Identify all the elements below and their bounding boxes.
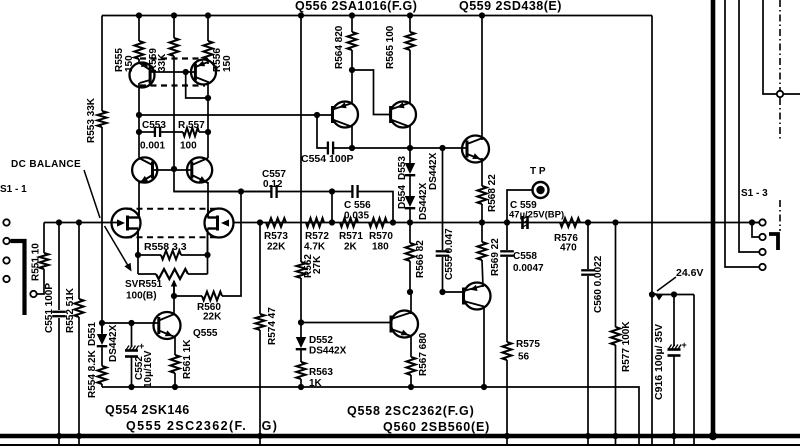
capacitor C552 electrolytic <box>125 349 138 352</box>
wire R564 to T1 emitter <box>351 50 353 70</box>
capacitor C557 <box>270 185 272 198</box>
svg-text:R573: R573 <box>264 231 288 242</box>
node top rail / R562 column <box>298 12 304 18</box>
wire right gate / feedback chain <box>234 222 760 224</box>
svg-text:Q560 2SB560(E): Q560 2SB560(E) <box>383 420 490 434</box>
wire Q559 emitter down <box>481 158 483 186</box>
svg-text:R 557: R 557 <box>178 120 205 131</box>
terminal input pin 2 <box>3 238 9 244</box>
wire vertical feed C to S1 pole <box>763 0 800 94</box>
node chain right tap <box>390 219 396 225</box>
transistor upper pair right <box>191 60 216 85</box>
svg-text:4.7K: 4.7K <box>304 242 326 253</box>
wire C556 right <box>358 192 393 223</box>
resistor R572 <box>306 218 324 227</box>
svg-text:R577 100K: R577 100K <box>621 321 632 372</box>
resistor R574 <box>255 314 264 330</box>
wire R565 to T2 emitter <box>409 50 411 103</box>
svg-text:Q555: Q555 <box>193 328 218 339</box>
node top rail / R564 <box>349 12 355 18</box>
24.6V pointer arrow <box>657 277 676 291</box>
transistor Q556 right <box>390 102 416 128</box>
node right source / R558 <box>204 252 210 258</box>
capacitor C558 <box>500 250 514 252</box>
dashed dual-FET outline top <box>126 208 219 210</box>
wire R568 to chain <box>481 204 483 223</box>
wire Q558 emitter down <box>410 335 412 357</box>
switch linkage dash line lower <box>779 200 781 231</box>
svg-text:D554: D554 <box>397 185 408 209</box>
dashed dual-FET outline bottom <box>126 236 219 238</box>
wire 24.6V node across <box>652 294 694 296</box>
node C553 left top <box>136 129 142 135</box>
wire D554 to chain <box>409 209 411 223</box>
wire R565 top <box>409 16 411 33</box>
wire C552 bottom <box>131 357 133 387</box>
terminal S1 pole circle <box>777 91 783 97</box>
node upper-right collector tie <box>205 95 211 101</box>
svg-text:R551 10: R551 10 <box>31 243 42 281</box>
node C552 top <box>128 320 134 326</box>
svg-text:+: + <box>682 340 687 350</box>
wire upper-left collector <box>138 83 140 115</box>
resistor R562 <box>296 262 305 278</box>
wire C560 bottom to ground bus <box>587 276 589 446</box>
svg-text:0.035: 0.035 <box>344 211 369 222</box>
svg-text:0.0047: 0.0047 <box>513 263 544 274</box>
node C553/R557 right <box>205 129 211 135</box>
svg-text:Q558 2SC2362(F.G): Q558 2SC2362(F.G) <box>347 404 475 418</box>
node R563 ground-side <box>298 384 304 390</box>
svg-text:10µ/16V: 10µ/16V <box>143 350 154 388</box>
wire Q555 collector up to wiper node <box>173 296 175 314</box>
wire SVR row left <box>138 273 156 275</box>
wire R560 right up to feedback row <box>222 192 241 297</box>
node lower pair bases / R559 <box>171 166 177 172</box>
svg-text:DS442X: DS442X <box>108 324 119 362</box>
wire C553 row left <box>139 131 154 133</box>
node chain left / R574 column <box>257 219 263 225</box>
wire D553 to D554 <box>409 176 411 196</box>
wire C554 branch <box>317 115 327 148</box>
resistor R573 <box>266 218 286 227</box>
terminal S1-3 pin 1 <box>759 219 765 225</box>
wire to S1-3 pin 2 <box>752 223 759 238</box>
wire Q560 base <box>443 291 465 293</box>
wire C560 top <box>587 223 589 270</box>
JFET Q554 right half <box>205 209 234 238</box>
node 24.6V <box>649 291 655 297</box>
svg-text:C553: C553 <box>142 120 166 131</box>
wire SVR right side <box>207 255 209 274</box>
svg-text:DS442X: DS442X <box>309 346 347 357</box>
transistor upper pair left <box>130 63 155 88</box>
svg-text:150: 150 <box>222 55 233 72</box>
wire R552 top <box>78 223 80 300</box>
terminal S1-3 pin 3 <box>759 249 765 255</box>
wire C553 to R557 <box>161 131 183 133</box>
node R552 ground <box>76 433 82 439</box>
node C916 ground <box>671 433 677 439</box>
capacitor C916 electrolytic <box>668 348 681 351</box>
wire R551 bottom to pad <box>37 269 44 294</box>
switch linkage dash line upper <box>779 0 781 90</box>
node C552 ground-side <box>128 384 134 390</box>
resistor R558 <box>161 251 181 260</box>
svg-text:180: 180 <box>372 242 389 253</box>
svg-text:100(B): 100(B) <box>126 291 157 302</box>
wire vertical feed B <box>739 0 759 252</box>
wire D553 top <box>409 148 411 163</box>
resistor R551 feed corner <box>43 223 45 254</box>
svg-text:DS442X: DS442X <box>428 152 439 190</box>
resistor R561 <box>170 355 179 373</box>
resistor R571 <box>340 218 358 227</box>
node top rail / R556 <box>205 12 211 18</box>
svg-text:0.001: 0.001 <box>140 141 165 152</box>
capacitor C559 electrolytic on chain <box>521 216 524 229</box>
transistor Q555 <box>154 312 181 339</box>
svg-text:R553 33K: R553 33K <box>86 97 97 143</box>
svg-text:150: 150 <box>124 55 135 72</box>
resistor R555 <box>134 41 143 59</box>
wire collector signal to Q556 base <box>139 114 333 116</box>
wire R561 bottom <box>174 373 176 387</box>
resistor R563 <box>296 362 305 379</box>
wire R556 to upper-right transistor emitter <box>207 59 209 64</box>
wire T2 collector down <box>409 126 411 148</box>
svg-text:D552: D552 <box>309 335 333 346</box>
svg-text:C558: C558 <box>513 251 537 262</box>
capacitor C555 <box>436 250 450 252</box>
thick supply bus vertical <box>711 0 716 436</box>
node C557/C556 to chain <box>329 188 335 194</box>
resistor R565 <box>405 32 414 50</box>
wire R559 top <box>173 16 175 39</box>
svg-text:Q554 2SK146: Q554 2SK146 <box>105 403 190 417</box>
node D552 / Q558 base <box>298 319 304 325</box>
terminal S1-3 pin 2 <box>759 234 765 240</box>
dashed matched-pair outline bottom <box>140 84 205 86</box>
node chain / R568 R569 <box>479 219 485 225</box>
svg-text:100: 100 <box>180 141 197 152</box>
wire D551 to R554 <box>101 347 103 366</box>
svg-text:24.6V: 24.6V <box>676 267 703 279</box>
wire C558 to R575 <box>506 257 508 342</box>
wire vertical feed A <box>725 0 759 267</box>
wire C558 top <box>506 223 508 251</box>
diode D552 <box>296 337 307 348</box>
node T1 emitter / T2 base jog <box>349 67 355 73</box>
JFET Q554 left half <box>112 209 141 238</box>
svg-text:27K: 27K <box>312 255 323 274</box>
wire R554 bottom corner <box>101 384 103 387</box>
svg-text:R567 680: R567 680 <box>418 332 429 376</box>
svg-text:R571: R571 <box>339 231 363 242</box>
node Q556 base / C554 <box>314 112 320 118</box>
terminal S1-3 pin 4 <box>759 264 765 270</box>
resistor R568 <box>477 186 486 204</box>
svg-text:Q555 2SC2362(F. G): Q555 2SC2362(F. G) <box>126 419 278 433</box>
transistor lower pair right <box>187 157 212 182</box>
node wiper / Q555 collector / R560 <box>171 293 177 299</box>
wire R563 bottom <box>300 379 302 387</box>
DC balance pointer line <box>84 170 100 218</box>
wire R558 left <box>138 254 161 256</box>
svg-text:S1 - 1: S1 - 1 <box>0 184 27 195</box>
wire lower-right emitter to FET drain <box>207 182 209 210</box>
svg-text:C555 0.047: C555 0.047 <box>444 228 455 280</box>
node C551 ground <box>56 433 62 439</box>
resistor R553 <box>97 111 106 127</box>
wire wiper to R560 <box>174 295 202 297</box>
svg-text:C551 100P: C551 100P <box>44 283 55 333</box>
capacitor C551 <box>52 311 66 313</box>
transistor Q559 <box>462 136 489 163</box>
wire R574 bottom to ground bus <box>259 330 261 446</box>
svg-text:56: 56 <box>518 352 530 363</box>
terminal input pin 1 <box>3 219 9 225</box>
svg-text:C916 100µ/ 35V: C916 100µ/ 35V <box>653 324 665 400</box>
node left source / R558 <box>135 252 141 258</box>
wire R556 top <box>207 16 209 42</box>
wire R555 top <box>138 16 140 42</box>
test point TP <box>533 182 549 198</box>
wire R577 top <box>615 223 617 328</box>
svg-text:R575: R575 <box>516 339 540 350</box>
svg-text:T P: T P <box>530 166 546 177</box>
ground bus <box>0 434 800 439</box>
svg-text:D553: D553 <box>397 156 408 180</box>
node R574 ground <box>257 433 263 439</box>
node C916 top <box>671 291 677 297</box>
switch S1-3 wiper bar <box>769 234 778 250</box>
svg-text:C560 0.0022: C560 0.0022 <box>593 255 604 313</box>
svg-text:R566 82: R566 82 <box>415 240 426 278</box>
wire C555 upper <box>442 148 444 250</box>
node R575 ground <box>504 433 510 439</box>
wire bias node to Q555 base <box>102 322 160 324</box>
wire R567 bottom <box>410 375 412 387</box>
capacitor C560 <box>581 269 595 271</box>
svg-text:R568 22: R568 22 <box>487 174 498 212</box>
potentiometer SVR551 <box>156 269 188 279</box>
node R567 / output wire <box>408 384 414 390</box>
wire C551 bottom to ground bus <box>58 318 60 446</box>
node bus to ground rail <box>709 432 717 440</box>
svg-text:Q559 2SD438(E): Q559 2SD438(E) <box>459 0 562 13</box>
wire output/emitter rail <box>102 387 639 446</box>
diode D553 <box>405 163 416 174</box>
wire SVR left side <box>137 255 139 274</box>
node R560 / C557 row <box>238 188 244 194</box>
wire C916 lower to ground bus <box>673 356 675 446</box>
wire R562 to D552 <box>300 278 302 337</box>
resistor R560 <box>202 292 222 301</box>
wire R569 top <box>481 223 483 243</box>
wire TP to chain node <box>507 190 532 223</box>
transistor lower pair left <box>132 157 157 182</box>
wire pin1 stub <box>755 222 759 224</box>
wire R574 top <box>259 223 261 315</box>
terminal R551 pad <box>30 291 36 297</box>
diode D554 <box>405 196 416 207</box>
resistor R552 <box>74 299 83 317</box>
wire R566 bottom <box>409 261 411 292</box>
svg-text:R574 47: R574 47 <box>267 307 278 345</box>
wire upper-left collector to lower-left collector <box>138 115 140 158</box>
resistor R564 <box>347 32 356 50</box>
wire R559 node down and to C557 row <box>174 169 271 192</box>
resistor R554 <box>97 366 106 384</box>
node T1 collector / C554 / drive wire <box>349 145 355 151</box>
svg-text:DC BALANCE: DC BALANCE <box>11 159 81 170</box>
svg-text:47µ/25V(BP): 47µ/25V(BP) <box>509 210 564 221</box>
svg-text:470: 470 <box>560 243 577 254</box>
resistor R569 <box>477 242 486 260</box>
node input / R552 <box>76 219 82 225</box>
transistor Q560 <box>464 283 491 310</box>
resistor R566 <box>405 243 414 261</box>
wire T1 collector down <box>351 126 353 148</box>
wire Q558 collector up <box>410 292 412 314</box>
wire SVR row right <box>188 273 208 275</box>
node top rail / R555 <box>136 12 142 18</box>
node input / C551 <box>56 219 62 225</box>
wire lower-right collector <box>207 132 209 158</box>
wire C554 right <box>333 147 352 149</box>
wire supply drop x652 <box>651 16 653 446</box>
resistor R551 <box>39 253 48 269</box>
wire drive node across <box>352 147 467 149</box>
wire jog to T2 base <box>352 70 391 115</box>
node pair bases <box>183 69 189 75</box>
wire R553 bottom to D551 node <box>101 127 103 333</box>
capacitor C554 <box>327 142 329 155</box>
node top rail / R559 <box>171 12 177 18</box>
node T2 collector / D553 <box>407 145 413 151</box>
transistor Q556 left <box>332 102 358 128</box>
node R553/D551/gate-bias junction <box>99 320 105 326</box>
wire D551 column <box>101 323 103 334</box>
svg-text:0.12: 0.12 <box>263 179 283 190</box>
resistor R556 <box>203 41 212 59</box>
wire base tie down to right collector <box>186 72 208 98</box>
node chain mid tap <box>329 219 335 225</box>
switch S1-1 wiper bar <box>11 241 25 315</box>
wire R562 column upper <box>300 16 302 263</box>
wire R577 bottom to ground bus <box>615 345 617 446</box>
svg-text:22K: 22K <box>203 312 222 323</box>
node R566 / Q558 collector / drive <box>407 289 413 295</box>
wire R558 right <box>181 254 208 256</box>
svg-text:S1 - 3: S1 - 3 <box>741 188 768 199</box>
svg-text:+: + <box>139 341 144 351</box>
svg-text:R570: R570 <box>369 231 393 242</box>
resistor R577 <box>611 327 620 345</box>
wire lower-left emitter to FET drain <box>138 182 140 210</box>
wire C552 top <box>131 323 133 347</box>
SVR551 wiper arrow <box>173 281 175 296</box>
resistor R576 <box>560 218 580 227</box>
svg-text:C 556: C 556 <box>344 200 371 211</box>
svg-text:R552 51K: R552 51K <box>65 287 76 333</box>
svg-text:C554 100P: C554 100P <box>301 153 354 165</box>
svg-text:Q556 2SA1016(F.G): Q556 2SA1016(F.G) <box>295 0 417 13</box>
wire D552 to R563 <box>300 350 302 362</box>
resistor R559 <box>169 38 178 56</box>
svg-text:R569 22: R569 22 <box>490 238 501 276</box>
node chain / diode column <box>407 219 413 225</box>
wire C557 to C556 <box>277 191 353 193</box>
capacitor C556 <box>351 185 353 198</box>
capacitor C553 <box>154 127 156 137</box>
diode D551 <box>97 334 108 345</box>
node top rail / R565 <box>407 12 413 18</box>
node chain to S1-3 <box>749 219 755 225</box>
svg-text:D551: D551 <box>87 322 98 346</box>
wire C557 left <box>174 191 271 193</box>
node C560 ground <box>585 433 591 439</box>
wire top supply rail <box>102 15 652 17</box>
wire R559 bottom to lower pair base node <box>173 56 175 169</box>
wire Q560 collector down <box>483 306 485 387</box>
node chain / R577 <box>612 219 618 225</box>
wire T1 emitter diag up <box>351 70 353 104</box>
wire C556 mid tap <box>331 192 333 223</box>
node chain / C560 <box>585 219 591 225</box>
wire R552 bottom to ground bus <box>78 317 80 446</box>
wire R557 right <box>199 131 208 133</box>
wire R564 top <box>351 16 353 33</box>
svg-text:2K: 2K <box>344 242 358 253</box>
wire branch drop x694 <box>693 295 695 446</box>
node R561 ground-side <box>172 384 178 390</box>
wire Q558 base <box>301 322 391 324</box>
wire C916 upper <box>673 295 675 347</box>
wire left supply branch x102 upper <box>101 16 103 112</box>
wire R575 bottom to ground bus <box>506 360 508 446</box>
wire upper-right collector down <box>207 81 209 132</box>
svg-text:R563: R563 <box>309 367 333 378</box>
wire input gate <box>44 222 119 224</box>
terminal input pin 3 <box>3 257 9 263</box>
node left collector / C553 wire <box>136 112 142 118</box>
svg-text:R564 820: R564 820 <box>334 25 345 69</box>
resistor R567 <box>406 357 415 375</box>
node chain / TP / C558 <box>504 219 510 225</box>
transistor Q558 <box>391 311 418 338</box>
node C555 top / Q559 base wire <box>439 145 445 151</box>
node C555 / Q560 base wire <box>439 289 445 295</box>
svg-text:R565 100: R565 100 <box>385 25 396 69</box>
wire pair base tie <box>150 71 195 73</box>
svg-text:R554 8.2K: R554 8.2K <box>87 349 98 398</box>
dashed matched-pair outline top <box>140 57 205 59</box>
svg-text:R561 1K: R561 1K <box>182 339 193 379</box>
node R577 ground <box>612 433 618 439</box>
wire C551 top <box>58 223 60 311</box>
svg-text:22K: 22K <box>267 242 286 253</box>
node Q560 collector / output wire <box>481 384 487 390</box>
svg-text:R572: R572 <box>305 231 329 242</box>
wire lower pair base tie <box>153 169 192 171</box>
terminal input pin 4 <box>3 276 9 282</box>
svg-text:SVR551: SVR551 <box>125 279 163 290</box>
svg-text:33K: 33K <box>157 53 168 72</box>
wire R555 to Q552 emitter <box>138 59 140 64</box>
bottom edge line <box>0 444 800 446</box>
